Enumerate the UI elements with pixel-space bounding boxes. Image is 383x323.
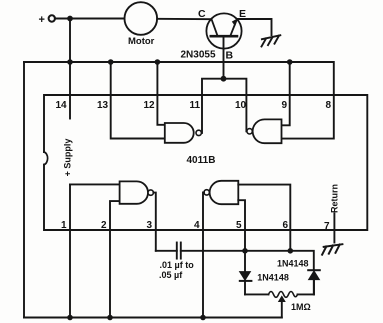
svg-text:13: 13	[97, 100, 109, 111]
svg-text:4011B: 4011B	[187, 155, 216, 166]
resistor R1 1M ohm	[245, 280, 314, 312]
wire: pin 9 to gate U1b input	[282, 62, 290, 125]
junction dot: rail pin14	[67, 59, 73, 65]
svg-text:12: 12	[144, 100, 156, 111]
svg-text:3: 3	[147, 220, 153, 231]
wire: left supply rail	[23, 62, 25, 318]
svg-text:C: C	[198, 8, 206, 20]
junction dot: base to bracket	[221, 76, 227, 82]
junction dot: pin 6 / cap wire	[288, 248, 294, 254]
svg-text:B: B	[226, 50, 234, 62]
wire: terminal to motor	[55, 18, 125, 20]
motor M1	[125, 2, 158, 47]
ground (pin 7)	[322, 244, 342, 255]
wire: motor to collector	[157, 18, 211, 20]
svg-text:5: 5	[236, 220, 242, 231]
wire: pin 13 to gate U1a input	[111, 62, 165, 139]
svg-text:4: 4	[194, 220, 200, 231]
svg-text:10: 10	[235, 100, 247, 111]
wire: bottom rail	[24, 317, 282, 319]
wire: base bracket to pins 11 and 10	[202, 79, 246, 133]
svg-text:E: E	[239, 8, 246, 20]
+ terminal	[39, 14, 56, 26]
wire: top supply rail	[24, 62, 334, 139]
svg-text:1N4148: 1N4148	[257, 272, 289, 282]
NAND gate U1a	[165, 123, 202, 143]
svg-text:+ Supply: + Supply	[62, 139, 72, 177]
transistor Q1 2N3055	[181, 8, 247, 62]
wiper arrow of R1	[279, 296, 285, 317]
junction dot: bottom rail pin 4	[200, 315, 206, 321]
wire: gate U1d bottom input to pin 5	[238, 200, 245, 251]
IC U1 4011B outline	[44, 95, 367, 230]
diode D2 1N4148	[277, 258, 320, 294]
wire: gate U1d output to pin 4	[203, 192, 204, 317]
junction dot: supply tap	[67, 16, 73, 22]
svg-text:7: 7	[324, 221, 330, 232]
wire: pin 1 vertical	[69, 184, 71, 317]
junction dot: bottom rail pin 2	[107, 315, 113, 321]
wire: emitter to ground	[237, 19, 271, 35]
svg-text:Motor: Motor	[128, 36, 155, 47]
svg-text:14: 14	[56, 100, 68, 111]
svg-text:1N4148: 1N4148	[277, 258, 309, 268]
svg-text:2N3055: 2N3055	[181, 50, 216, 61]
wire: pin 7 to ground	[333, 214, 335, 243]
junction dot: pin 5 / cap wire	[242, 248, 248, 254]
svg-text:9: 9	[282, 100, 288, 111]
svg-text:11: 11	[190, 100, 201, 111]
NAND gate U1c	[120, 181, 154, 203]
junction dot: bottom rail pin 1	[67, 315, 73, 321]
junction dot: rail pin9	[287, 59, 293, 65]
svg-text:8: 8	[326, 100, 332, 111]
NAND gate U1d	[204, 181, 238, 204]
NAND gate U1b	[247, 119, 282, 143]
svg-text:1MΩ: 1MΩ	[291, 302, 311, 312]
svg-text:1: 1	[61, 220, 67, 231]
ground (emitter)	[262, 35, 281, 46]
svg-text:+: +	[39, 14, 45, 26]
svg-text:.01 µf to: .01 µf to	[160, 260, 195, 270]
wire: capacitor to diode branch	[181, 251, 314, 270]
svg-text:6: 6	[283, 220, 289, 231]
svg-text:Return: Return	[329, 184, 339, 213]
wire: gate U1d top input to pin 6	[238, 185, 290, 251]
junction dot: rail pin13	[108, 59, 114, 65]
wire: supply drop to pin 14	[69, 19, 71, 119]
wire: gate U1c output to pin 3	[153, 193, 155, 251]
svg-text:2: 2	[101, 220, 107, 231]
svg-text:.05 µf: .05 µf	[159, 270, 183, 280]
diode D1 1N4148	[240, 251, 289, 295]
capacitor C1	[156, 243, 194, 281]
wire: pin 2 to gate U1c input	[110, 201, 120, 317]
wire: base	[223, 36, 225, 78]
wire: pin 12 to gate U1a input	[157, 62, 164, 125]
junction dot: rail pin12	[155, 59, 161, 65]
wire: pin 1 to gate U1c input	[70, 183, 120, 185]
